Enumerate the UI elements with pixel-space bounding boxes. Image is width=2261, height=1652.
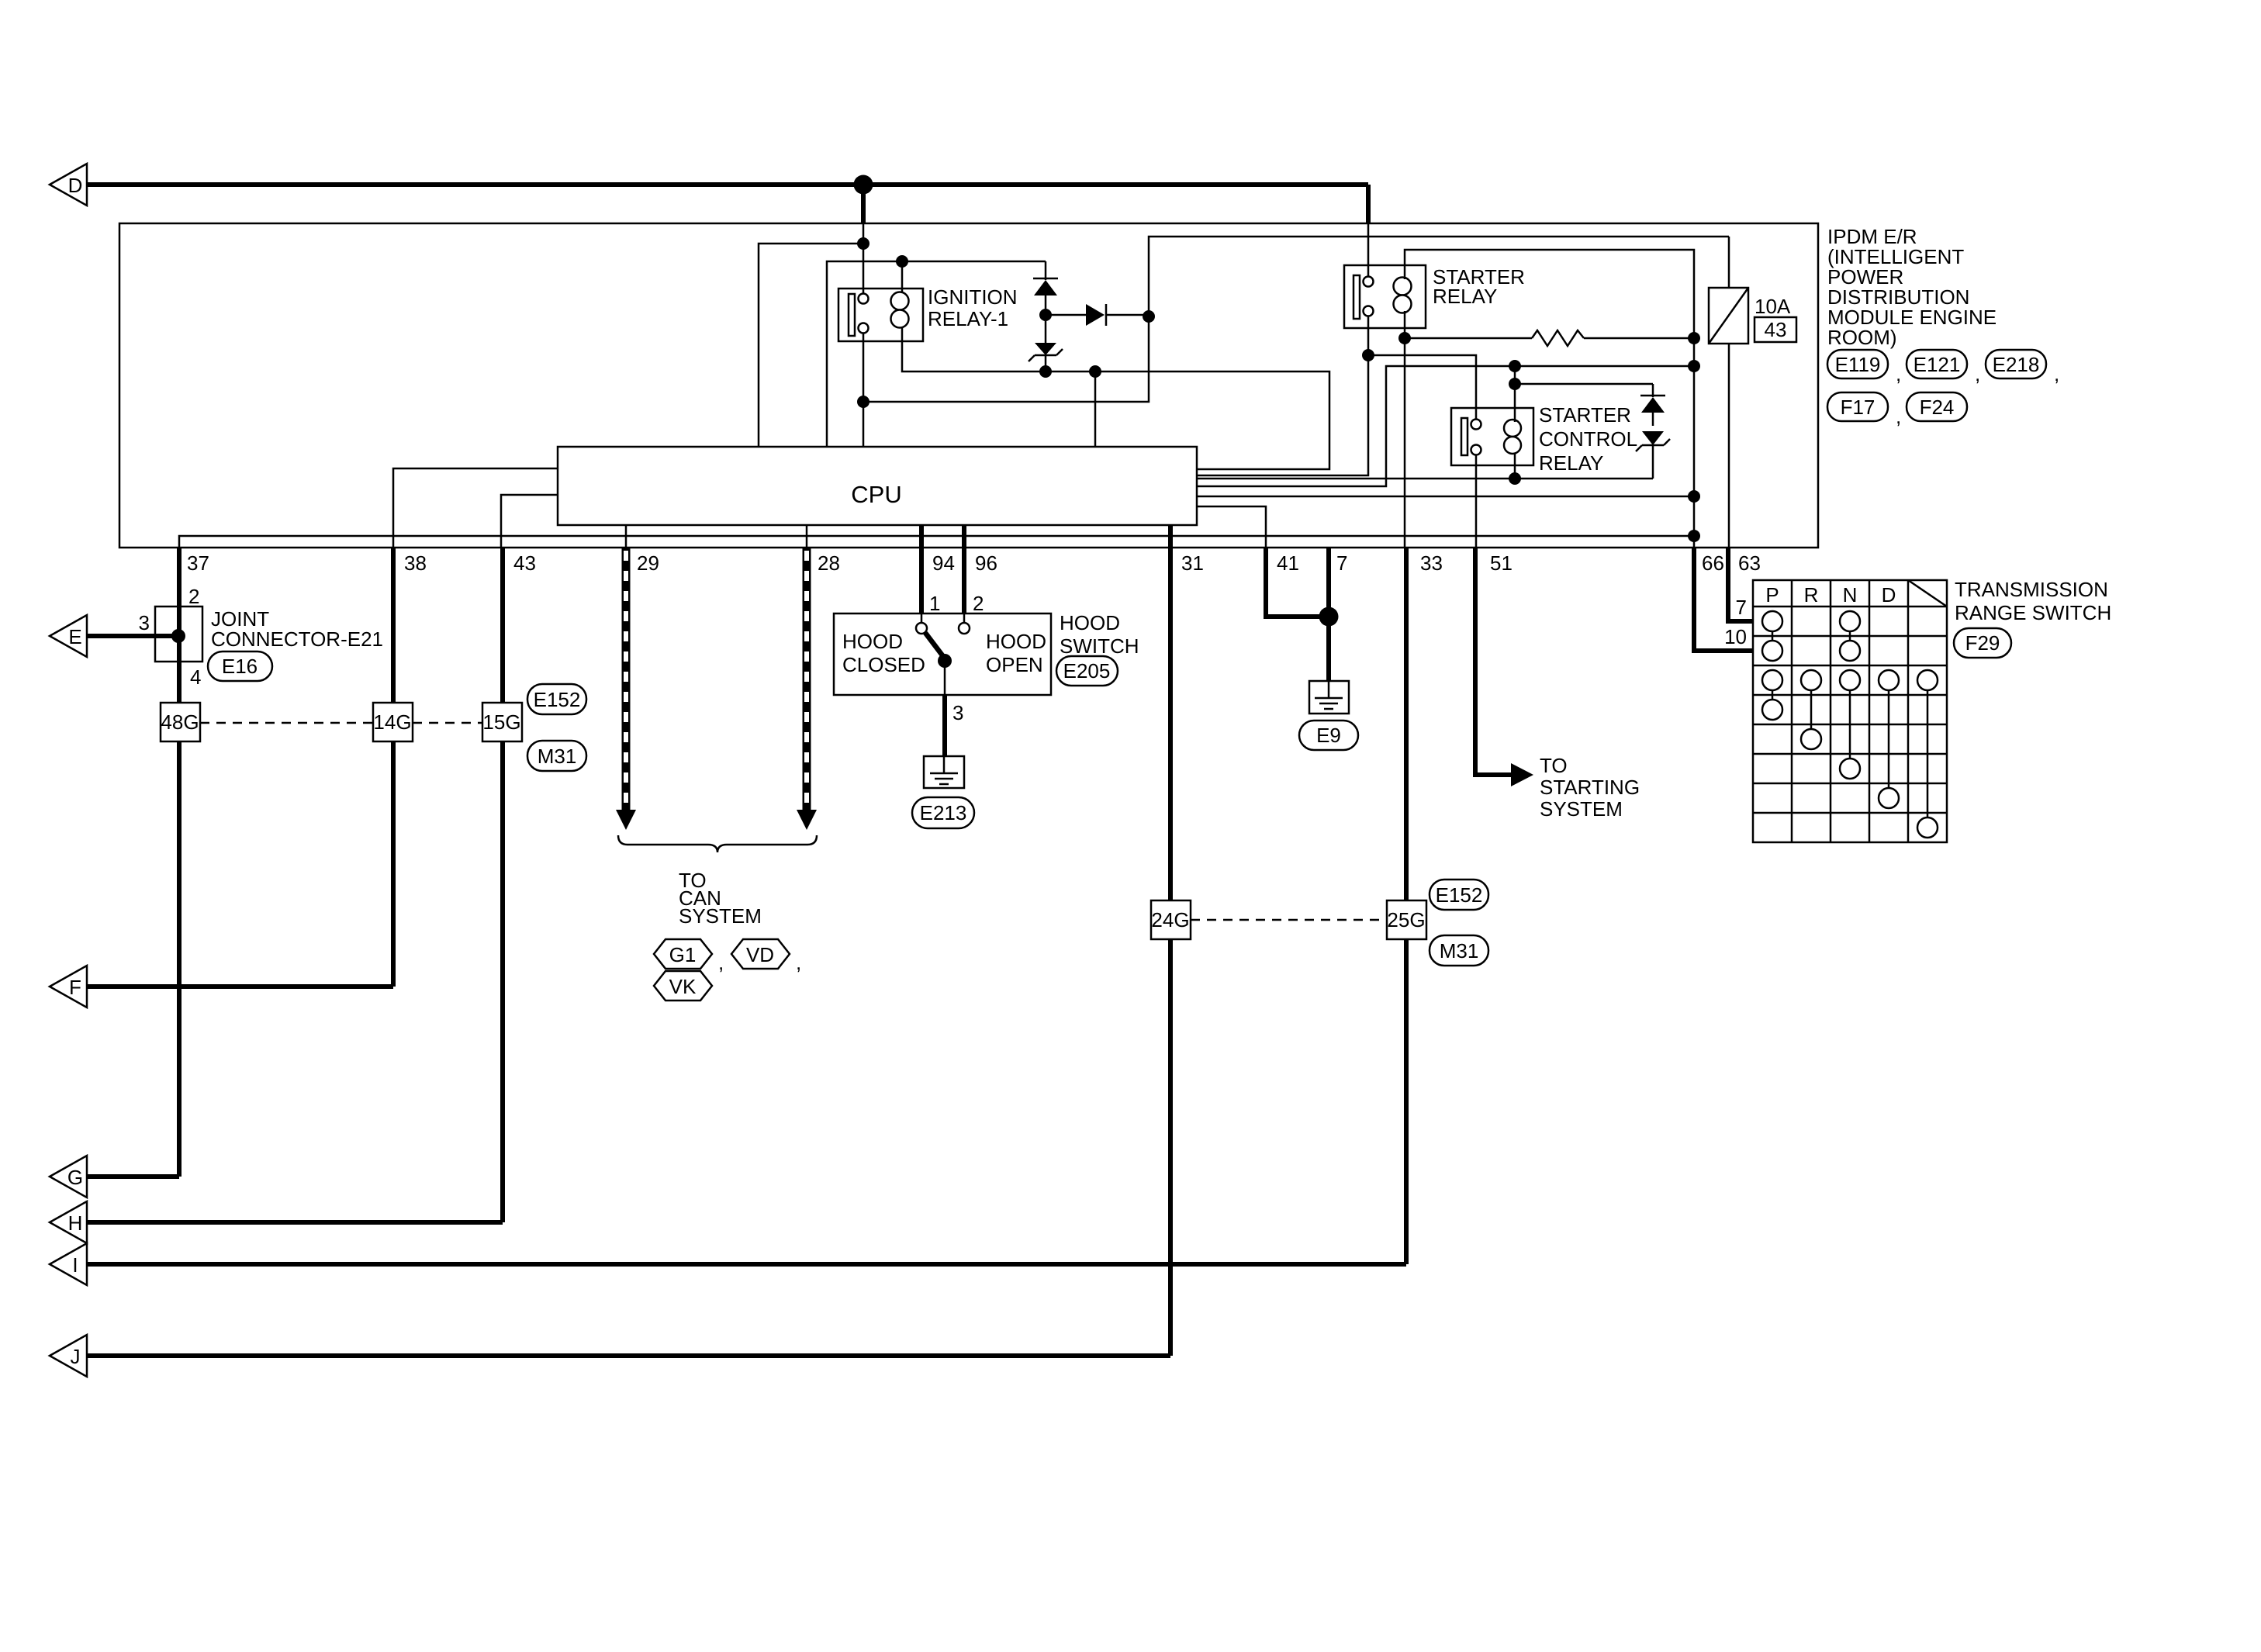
svg-text:E121: E121 bbox=[1914, 353, 1961, 376]
svg-text:G1: G1 bbox=[669, 943, 697, 966]
svg-text:N: N bbox=[1843, 583, 1858, 607]
wire starter relay contact to nodes bbox=[1367, 223, 1370, 277]
svg-text:CPU: CPU bbox=[851, 481, 901, 508]
svg-text:10: 10 bbox=[1724, 625, 1747, 648]
node ground junction bbox=[1319, 607, 1339, 627]
svg-text:2: 2 bbox=[973, 592, 984, 615]
wire pin41 to ground node bbox=[1266, 548, 1329, 617]
svg-text:41: 41 bbox=[1277, 551, 1299, 575]
node on ignition contact feed bbox=[857, 237, 869, 250]
fuse 10A 43 bbox=[1709, 237, 1796, 548]
wire pin43 to H bbox=[500, 548, 505, 1222]
range switch contacts column X bbox=[1917, 670, 1938, 838]
connector E152 oval right bbox=[1430, 880, 1488, 910]
svg-text:,: , bbox=[1896, 405, 1901, 428]
ignition relay IGNITION RELAY-1 bbox=[838, 285, 1018, 341]
wire pin33 to I bbox=[1404, 548, 1409, 1264]
wire ignition contact bottom to node bbox=[863, 333, 865, 447]
wire pin33 riser bbox=[1404, 338, 1406, 548]
diode D3 control clamp up bbox=[1640, 384, 1665, 426]
connector arrow I bbox=[50, 1243, 87, 1285]
svg-text:,: , bbox=[2054, 362, 2059, 385]
svg-text:F17: F17 bbox=[1841, 396, 1876, 419]
svg-text:F29: F29 bbox=[1965, 631, 2000, 655]
splice 25G bbox=[1387, 900, 1426, 939]
svg-text:D: D bbox=[68, 174, 83, 197]
svg-text:E205: E205 bbox=[1063, 659, 1111, 683]
svg-text:HOOD: HOOD bbox=[842, 630, 903, 653]
svg-text:STARTING: STARTING bbox=[1540, 776, 1640, 799]
wire CAN shielded pin28 bbox=[797, 548, 817, 830]
joint connector E21 bbox=[139, 585, 383, 689]
svg-text:STARTER: STARTER bbox=[1539, 403, 1631, 427]
zener Z1 ignition bbox=[1029, 321, 1063, 372]
svg-text:M31: M31 bbox=[1440, 939, 1479, 963]
wire dashed 14G-15G bbox=[413, 722, 482, 724]
wire pin63 to range switch bbox=[1728, 548, 1753, 621]
connector E121 oval bbox=[1907, 350, 1980, 385]
wire branch to starter control contact bbox=[1368, 355, 1476, 420]
svg-text:OPEN: OPEN bbox=[986, 653, 1043, 676]
svg-text:M31: M31 bbox=[538, 745, 577, 768]
range switch contacts column N bbox=[1840, 611, 1860, 779]
svg-text:E218: E218 bbox=[1993, 353, 2040, 376]
svg-text:96: 96 bbox=[975, 551, 997, 575]
connector M31 oval right bbox=[1430, 935, 1488, 966]
wire pin31 stub bbox=[1168, 525, 1173, 548]
node control line right bbox=[1688, 360, 1700, 372]
wire thick stub D bus to ignition relay bbox=[861, 185, 866, 223]
svg-text:E9: E9 bbox=[1316, 724, 1341, 747]
node coil top loop bbox=[1509, 378, 1521, 390]
svg-text:1: 1 bbox=[929, 592, 940, 615]
resistor R1 bbox=[1405, 330, 1694, 346]
connector arrow G bbox=[50, 1156, 87, 1198]
wire E to joint connector bbox=[87, 634, 178, 638]
svg-text:,: , bbox=[718, 951, 724, 974]
wire starter control coil top bbox=[1514, 366, 1516, 422]
connector arrow J bbox=[50, 1335, 87, 1377]
connector E119 oval bbox=[1827, 350, 1901, 385]
connector arrow H bbox=[50, 1201, 87, 1243]
wire thick stub D bus to starter relay bbox=[1366, 185, 1371, 223]
brace to CAN system bbox=[618, 835, 817, 852]
svg-text:25G: 25G bbox=[1387, 908, 1425, 931]
svg-text:38: 38 bbox=[404, 551, 427, 575]
svg-text:43: 43 bbox=[1765, 318, 1787, 341]
svg-text:G: G bbox=[67, 1166, 83, 1189]
svg-text:J: J bbox=[71, 1345, 81, 1368]
svg-text:H: H bbox=[68, 1211, 83, 1235]
svg-text:E213: E213 bbox=[920, 801, 967, 824]
svg-text:SYSTEM: SYSTEM bbox=[1540, 797, 1623, 821]
label IPDM block bbox=[1827, 225, 1997, 349]
wire tap to CPU top bbox=[1094, 372, 1097, 447]
transmission range switch F29 grid bbox=[1753, 580, 1947, 842]
svg-text:CLOSED: CLOSED bbox=[842, 653, 925, 676]
starter control relay STARTER CONTROL RELAY bbox=[1451, 403, 1637, 475]
svg-text:3: 3 bbox=[139, 611, 150, 634]
wire dashed 48G-14G bbox=[200, 722, 373, 724]
node junction on D bus bbox=[854, 175, 873, 195]
svg-text:RANGE SWITCH: RANGE SWITCH bbox=[1955, 601, 2111, 624]
svg-text:,: , bbox=[1896, 362, 1901, 385]
svg-text:,: , bbox=[1975, 362, 1980, 385]
svg-text:10A: 10A bbox=[1755, 295, 1791, 318]
wire pin43 internal bbox=[501, 495, 558, 548]
wire pin96 stub bbox=[962, 525, 966, 548]
range switch contacts column P bbox=[1762, 611, 1782, 720]
svg-text:HOOD: HOOD bbox=[1060, 611, 1120, 634]
wire ignition coil bottom return bbox=[902, 326, 1329, 469]
svg-text:7: 7 bbox=[1336, 551, 1347, 575]
range switch contacts column R bbox=[1801, 670, 1821, 749]
wire pin7 to ground E9 bbox=[1326, 548, 1331, 681]
svg-text:CONNECTOR-E21: CONNECTOR-E21 bbox=[211, 627, 383, 651]
wire CPU top to D bus node bbox=[759, 244, 863, 447]
node starter contact out bbox=[1362, 349, 1374, 361]
wire CPU to relay control line bbox=[1197, 366, 1694, 486]
connector E218 oval bbox=[1986, 350, 2059, 385]
svg-text:SYSTEM: SYSTEM bbox=[679, 904, 762, 928]
connector F24 oval bbox=[1907, 392, 1967, 421]
node ignition contact output bbox=[857, 396, 869, 408]
svg-text:E152: E152 bbox=[1436, 883, 1483, 907]
IPDM E/R box bbox=[119, 223, 1818, 548]
zener Z2 control bbox=[1636, 431, 1670, 479]
node diode mid bbox=[1039, 309, 1052, 321]
diode D2 right-pointing bbox=[1046, 304, 1149, 326]
svg-text:TO: TO bbox=[1540, 754, 1568, 777]
wire F line bbox=[87, 984, 393, 989]
starter relay STARTER RELAY bbox=[1344, 265, 1525, 328]
splice 14G bbox=[373, 703, 413, 741]
wire pin38 to F bbox=[391, 548, 396, 987]
diode D1 ignition clamp up bbox=[1033, 261, 1058, 309]
node diode chain bottom bbox=[1039, 365, 1052, 378]
label TO CAN SYSTEM bbox=[679, 869, 762, 928]
svg-text:48G: 48G bbox=[161, 710, 199, 734]
svg-text:94: 94 bbox=[932, 551, 955, 575]
svg-text:R: R bbox=[1804, 583, 1819, 607]
ground E9 bbox=[1309, 681, 1349, 714]
svg-text:29: 29 bbox=[637, 551, 659, 575]
svg-text:RELAY: RELAY bbox=[1539, 451, 1603, 475]
svg-text:24G: 24G bbox=[1151, 908, 1189, 931]
label TRANSMISSION RANGE SWITCH bbox=[1955, 578, 2111, 624]
connector F17 oval bbox=[1827, 392, 1901, 428]
svg-text:2: 2 bbox=[188, 585, 199, 608]
svg-text:I: I bbox=[72, 1253, 78, 1277]
wire G line bbox=[87, 1174, 179, 1179]
svg-text:E16: E16 bbox=[222, 655, 258, 678]
range switch contacts column D bbox=[1879, 670, 1899, 808]
svg-text:TRANSMISSION: TRANSMISSION bbox=[1955, 578, 2108, 601]
svg-text:CONTROL: CONTROL bbox=[1539, 427, 1637, 451]
connector E16 oval bbox=[208, 651, 272, 681]
svg-text:43: 43 bbox=[513, 551, 536, 575]
connector arrow F bbox=[50, 966, 87, 1007]
svg-text:63: 63 bbox=[1738, 551, 1761, 575]
wire pin37 internal long horizontal bbox=[179, 536, 1694, 548]
svg-text:28: 28 bbox=[818, 551, 840, 575]
wire pin38 internal bbox=[393, 468, 558, 548]
svg-text:F: F bbox=[69, 976, 81, 999]
net VD hexagon bbox=[731, 939, 801, 974]
wire pin51 to starting system bbox=[1475, 548, 1511, 775]
svg-text:P: P bbox=[1765, 583, 1779, 607]
wire J line bbox=[87, 1353, 1170, 1358]
svg-text:E152: E152 bbox=[534, 688, 581, 711]
splice 24G bbox=[1151, 900, 1191, 939]
connector M31 oval bbox=[527, 741, 586, 771]
wire I line bbox=[87, 1262, 1406, 1267]
node resistor right bbox=[1688, 332, 1700, 344]
svg-text:7: 7 bbox=[1736, 596, 1747, 619]
node coil bottom bbox=[1509, 472, 1521, 485]
node long line bbox=[1688, 490, 1700, 503]
svg-text:HOOD: HOOD bbox=[986, 630, 1046, 653]
connector F29 oval bbox=[1954, 628, 2011, 658]
wire pin94 stub bbox=[919, 525, 924, 548]
svg-text:37: 37 bbox=[187, 551, 209, 575]
svg-text:ROOM): ROOM) bbox=[1827, 326, 1897, 349]
wire pin29 stub bbox=[625, 525, 627, 548]
net G1 hexagon bbox=[654, 939, 724, 974]
wire coil bottom to CPU bbox=[1197, 478, 1653, 480]
svg-text:3: 3 bbox=[952, 701, 963, 724]
wire long CPU line to node66 bbox=[1197, 496, 1694, 498]
svg-text:D: D bbox=[1882, 583, 1896, 607]
svg-text:E119: E119 bbox=[1835, 353, 1881, 376]
svg-text:VK: VK bbox=[669, 975, 697, 998]
svg-text:IGNITION: IGNITION bbox=[928, 285, 1018, 309]
wire CPU top loop left bbox=[827, 261, 1046, 447]
node starter coil bottom bbox=[1398, 332, 1411, 344]
node ignition coil top bbox=[896, 255, 908, 268]
connector arrow D bbox=[50, 164, 87, 206]
svg-text:RELAY-1: RELAY-1 bbox=[928, 307, 1008, 330]
wire coil bottom stub bbox=[1514, 453, 1516, 479]
wire pin37 to joint connector and G bbox=[177, 548, 182, 1177]
svg-text:31: 31 bbox=[1181, 551, 1204, 575]
wire D bus thick bbox=[87, 182, 1368, 187]
svg-text:,: , bbox=[796, 951, 801, 974]
connector arrow E bbox=[50, 615, 87, 657]
svg-text:VD: VD bbox=[746, 943, 774, 966]
svg-text:F24: F24 bbox=[1920, 396, 1955, 419]
svg-text:66: 66 bbox=[1702, 551, 1724, 575]
node CPU top tap bbox=[1089, 365, 1101, 378]
wire control contact bottom pin51 bbox=[1475, 454, 1478, 548]
wire ignition contact top bbox=[863, 223, 865, 294]
hood switch E205 bbox=[834, 592, 1139, 756]
wire pin31 to J bbox=[1168, 548, 1173, 1356]
connector E152 oval bbox=[527, 684, 586, 714]
svg-text:RELAY: RELAY bbox=[1433, 285, 1497, 308]
wire node to vertical riser bbox=[863, 237, 1729, 402]
wire pin41 internal bbox=[1197, 506, 1266, 548]
wire diode loop top bbox=[1515, 383, 1653, 385]
label TO STARTING SYSTEM bbox=[1540, 754, 1640, 821]
node ignition diode output bbox=[1143, 310, 1155, 323]
svg-text:14G: 14G bbox=[373, 710, 411, 734]
node pin37 line bbox=[1688, 530, 1700, 542]
wire pin66 to range switch bbox=[1694, 548, 1753, 651]
splice 48G bbox=[161, 703, 200, 741]
wire starter coil top feed bbox=[1405, 250, 1694, 548]
node control line coil tap bbox=[1509, 360, 1521, 372]
net VK hexagon bbox=[654, 971, 712, 1001]
svg-text:E: E bbox=[68, 625, 81, 648]
svg-text:SWITCH: SWITCH bbox=[1060, 634, 1139, 658]
svg-text:51: 51 bbox=[1490, 551, 1513, 575]
connector E213 oval bbox=[912, 797, 974, 828]
wire pin28 stub bbox=[806, 525, 808, 548]
CPU box bbox=[558, 447, 1197, 525]
svg-text:33: 33 bbox=[1420, 551, 1443, 575]
svg-text:4: 4 bbox=[190, 665, 201, 689]
ground E213 bbox=[924, 756, 964, 788]
wire ignition coil top stub bbox=[901, 261, 904, 294]
wire CAN shielded pin29 bbox=[616, 548, 636, 830]
connector E9 oval bbox=[1299, 721, 1358, 750]
splice 15G bbox=[482, 703, 522, 741]
arrow to starting system bbox=[1511, 763, 1533, 786]
svg-text:15G: 15G bbox=[482, 710, 520, 734]
wire H line bbox=[87, 1220, 503, 1225]
wire dashed 24G-25G bbox=[1191, 919, 1387, 921]
wire pin96 to hood pin2 bbox=[962, 548, 966, 613]
wire starter coil bottom bbox=[1404, 311, 1406, 338]
connector E205 oval bbox=[1056, 656, 1118, 686]
wire pin94 to hood pin1 bbox=[919, 548, 924, 613]
